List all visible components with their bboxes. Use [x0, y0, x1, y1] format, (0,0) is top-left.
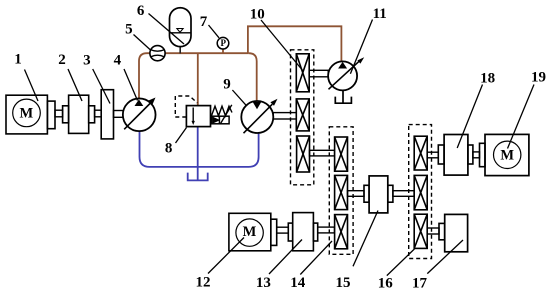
leader line 14 — [300, 241, 332, 275]
wire: pressure line riser from pump 4 up and manifold to right — [139, 53, 249, 100]
leader line 4 — [124, 69, 138, 101]
shaft gearbox14 box2 - box 15 — [348, 191, 365, 197]
box 17 — [445, 214, 468, 251]
leader line 18 — [457, 85, 482, 149]
svg-text:2: 2 — [58, 52, 66, 68]
leader line 15 — [353, 211, 378, 267]
svg-text:5: 5 — [125, 22, 133, 38]
shaft plate3-pump4 — [114, 111, 124, 118]
motor 1 circle — [13, 99, 41, 127]
leader line 3 — [93, 69, 110, 104]
wire: pressure gauge stem — [222, 49, 224, 54]
wire: manifold rounded corner down to pump 9 — [249, 53, 257, 102]
leader line 6 — [149, 14, 185, 45]
pump 11 — [328, 57, 364, 103]
shaft gearbox10 box1 - pump 11 — [309, 70, 328, 77]
gearbox 14 gear box2 — [335, 175, 348, 209]
leader line 16 — [387, 249, 415, 276]
svg-text:10: 10 — [250, 7, 265, 23]
box 15 left flange — [364, 185, 369, 202]
gearbox 10 gear box1 — [296, 54, 309, 92]
box 15 right flange — [388, 185, 393, 202]
leader line 12 — [208, 238, 244, 274]
valve 8 spring — [212, 106, 233, 116]
leader line 5 — [134, 35, 151, 51]
leader line 10 — [261, 20, 304, 72]
svg-text:4: 4 — [114, 52, 122, 68]
coupling 2 left flange — [63, 106, 69, 123]
coupling 2 right flange — [89, 106, 95, 123]
leader line 13 — [269, 240, 302, 275]
svg-text:M: M — [243, 224, 257, 240]
accumulator 6 — [170, 8, 192, 47]
leader line 7 — [209, 25, 220, 38]
wire: return line pump 4 bottom to pump 9 bottom — [140, 131, 259, 167]
svg-text:6: 6 — [137, 3, 145, 19]
valve 8 body — [186, 106, 210, 127]
svg-text:11: 11 — [373, 6, 387, 22]
leader line 9 — [232, 90, 246, 105]
motor 19 circle — [494, 141, 521, 168]
leader line 8 — [176, 128, 187, 144]
motor 12 — [229, 213, 335, 251]
svg-text:1: 1 — [14, 52, 22, 68]
svg-text:7: 7 — [200, 14, 208, 30]
coupling 18 box — [444, 135, 468, 176]
svg-text:9: 9 — [223, 76, 231, 92]
plate 3 — [101, 90, 113, 139]
coupling 2 box — [69, 95, 89, 133]
pump 11 mount — [342, 90, 344, 102]
pump 4 — [123, 98, 156, 132]
svg-text:16: 16 — [378, 276, 394, 292]
shaft motor1-coupling2 — [55, 110, 63, 117]
gearbox 14 gear box1 — [335, 137, 348, 171]
coupling 13 right flange — [313, 223, 317, 241]
leader line 2 — [68, 69, 82, 101]
gearbox 16 gear box3 — [414, 214, 427, 248]
shaft coupling2-plate3 — [95, 110, 102, 117]
shaft motor12-coupling13 — [277, 227, 289, 233]
leader line 17 — [427, 240, 463, 274]
wire: branch up from manifold to top line and down to pump 11 — [248, 26, 342, 62]
svg-text:M: M — [500, 147, 514, 163]
flow meter 5 — [150, 46, 165, 61]
box 15 — [369, 176, 388, 213]
wire: accumulator stem — [179, 46, 181, 53]
wire: branch down from manifold to valve 8 — [197, 53, 199, 106]
motor 1 flange — [47, 101, 55, 129]
gearbox 10 dashed housing — [291, 50, 314, 185]
svg-text:M: M — [20, 106, 34, 122]
shaft coupling13-gearbox14 — [318, 227, 335, 233]
motor 1 box — [6, 95, 47, 134]
coupling 18 right flange — [468, 145, 473, 164]
tank symbol — [188, 173, 208, 181]
shaft coupling18-motor19 — [473, 152, 480, 158]
svg-text:18: 18 — [480, 71, 495, 87]
shaft pump9 - gearbox10 — [273, 113, 296, 119]
svg-text:15: 15 — [336, 275, 351, 291]
coupling 18 left flange — [438, 145, 444, 164]
pressure gauge 7 — [217, 37, 229, 49]
gearbox 10 gear box3 — [297, 136, 310, 172]
svg-text:14: 14 — [290, 275, 306, 291]
svg-text:3: 3 — [83, 52, 91, 68]
gearbox 16 gear box2 — [414, 175, 427, 209]
coupling 13 left flange — [288, 223, 292, 241]
leader line 1 — [25, 70, 39, 102]
shaft box15 - gearbox16 box2 — [393, 191, 414, 197]
motor 19 flange — [480, 143, 486, 166]
svg-text:8: 8 — [165, 141, 173, 157]
valve 8 pilot dashed line — [175, 96, 197, 117]
gearbox 16 dashed housing — [409, 125, 432, 259]
pump 9 — [241, 99, 296, 134]
wire: valve 8 down to tank — [197, 127, 199, 180]
coupling 13 box — [293, 213, 314, 251]
svg-text:19: 19 — [531, 69, 546, 85]
svg-text:12: 12 — [196, 274, 211, 290]
box 17 flange — [439, 223, 445, 239]
shaft gearbox16 box1 - coupling 18 — [427, 152, 438, 158]
shaft gearbox16 box3 - box 17 — [427, 228, 439, 234]
motor 19 box — [485, 134, 529, 175]
gearbox 16 gear box1 — [414, 136, 427, 170]
gearbox 10 gear box2 — [296, 99, 309, 131]
svg-text:13: 13 — [256, 275, 271, 291]
gearbox 14 gear box3 — [335, 215, 348, 249]
leader line 11 — [350, 20, 372, 74]
leader line 19 — [508, 85, 535, 149]
shaft gearbox10 box3 - gearbox14 box1 — [310, 150, 335, 156]
svg-text:17: 17 — [412, 276, 428, 292]
valve 8 solenoid block — [211, 105, 232, 124]
svg-text:P: P — [220, 38, 226, 48]
gearbox 14 dashed housing — [329, 127, 353, 255]
